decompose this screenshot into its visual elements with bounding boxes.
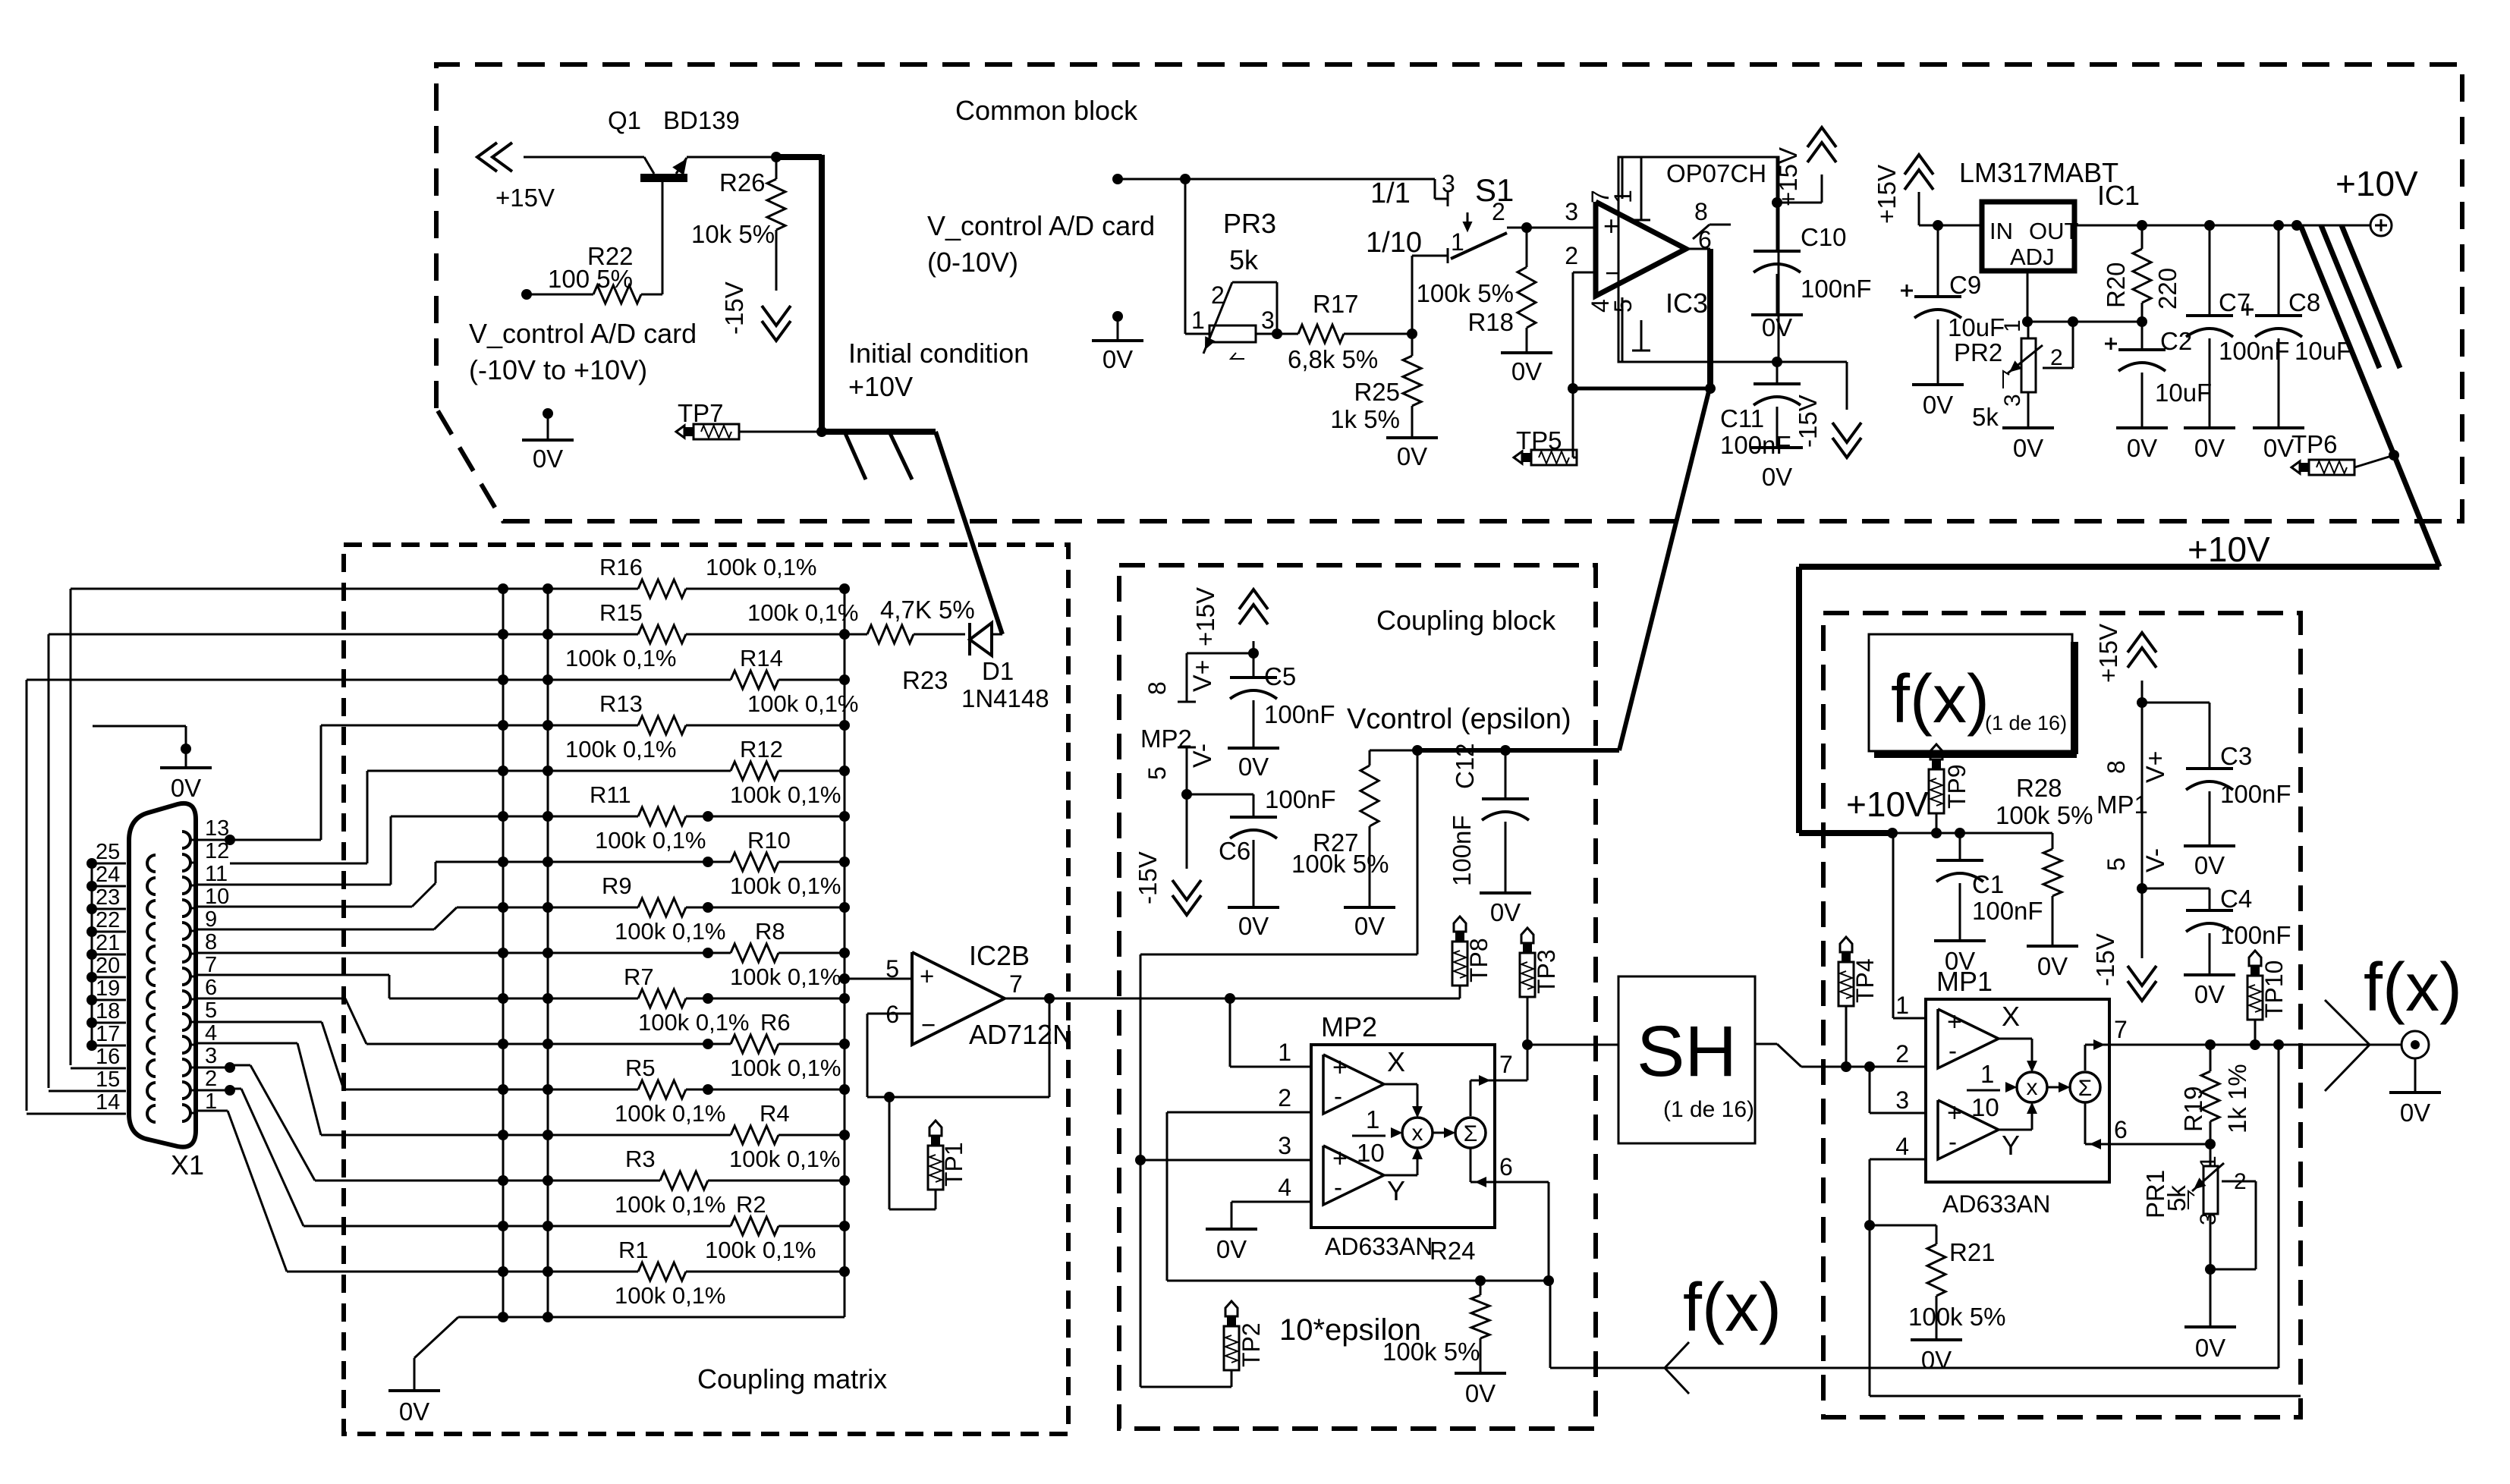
resistor R11	[391, 781, 845, 825]
svg-text:10uF: 10uF	[2295, 337, 2351, 365]
node bus R9	[839, 902, 850, 913]
MP2 pin6 internal	[1470, 1148, 1513, 1186]
node bus R1	[839, 1266, 850, 1277]
wire fx to BNC	[2370, 1044, 2402, 1046]
wire riser pin6	[196, 998, 366, 1044]
svg-text:IC1: IC1	[2097, 180, 2140, 211]
wire MP1 pin3	[1870, 1067, 1926, 1113]
svg-text:Q1: Q1	[608, 106, 641, 134]
svg-text:100k 0,1%: 100k 0,1%	[747, 599, 859, 626]
testpoint TP8	[1452, 916, 1492, 998]
svg-text:8: 8	[1143, 681, 1171, 695]
testpoint TP7	[676, 399, 739, 439]
label fx output	[2364, 950, 2462, 1026]
svg-text:0V: 0V	[2013, 434, 2043, 462]
power +15V arrow left	[477, 143, 555, 212]
matrix rail A	[502, 589, 505, 1317]
svg-text:100k 0,1%: 100k 0,1%	[730, 964, 841, 990]
node bus R15	[839, 629, 850, 640]
node V_control input	[1112, 174, 1435, 184]
svg-text:X: X	[2002, 1001, 2020, 1032]
svg-text:1: 1	[1451, 228, 1464, 256]
svg-text:R11: R11	[590, 781, 631, 808]
wire X1 ground rail	[91, 863, 93, 1042]
svg-text:3: 3	[1442, 170, 1455, 197]
svg-text:16: 16	[96, 1045, 120, 1069]
testpoint TP4	[1838, 937, 1879, 1067]
label 10*epsilon	[1279, 1313, 1421, 1347]
svg-text:0V: 0V	[2194, 851, 2225, 879]
svg-text:24: 24	[96, 863, 120, 887]
svg-text:6,8k 5%: 6,8k 5%	[1288, 345, 1378, 373]
MP2 V- pin	[1143, 744, 1217, 800]
svg-text:0V: 0V	[2037, 952, 2068, 980]
wire pin17 to ground	[93, 726, 191, 768]
wire riser pin13	[230, 725, 321, 840]
svg-text:R12: R12	[740, 736, 783, 762]
wire MP1 pin4	[1864, 1159, 1926, 1231]
matrix 0V row	[414, 1312, 845, 1391]
svg-text:0V: 0V	[2194, 980, 2225, 1008]
svg-text:(0-10V): (0-10V)	[927, 247, 1018, 278]
resistor R23	[845, 596, 975, 694]
svg-text:100k 0,1%: 100k 0,1%	[595, 827, 706, 854]
power -15V IC3	[1794, 395, 1861, 457]
svg-text:0V: 0V	[1465, 1379, 1496, 1407]
IC3 pin8 stub	[1693, 198, 1731, 239]
capacitor C10	[1754, 203, 1872, 315]
transistor Q1 BD139	[608, 106, 740, 182]
svg-text:+: +	[1603, 210, 1619, 241]
svg-text:Common block: Common block	[955, 95, 1138, 126]
wire PR1 bottom	[2210, 1214, 2212, 1327]
capacitor C9	[1901, 225, 2005, 385]
wire pin8 row	[195, 951, 197, 954]
potentiometer PR3	[1191, 208, 1277, 359]
svg-text:100k 0,1%: 100k 0,1%	[747, 690, 859, 717]
IC3 pin1 stub	[1609, 157, 1650, 220]
wire riser pin11	[196, 816, 391, 885]
svg-text:100nF: 100nF	[1264, 700, 1335, 728]
label Coupling matrix	[697, 1363, 887, 1394]
svg-text:0V: 0V	[399, 1398, 429, 1426]
svg-text:0V: 0V	[1490, 898, 1521, 926]
svg-text:R8: R8	[755, 918, 785, 945]
wire MP2 pin6	[1495, 1182, 1549, 1281]
node bus R8	[839, 948, 850, 958]
svg-text:R2: R2	[736, 1191, 766, 1218]
svg-text:0V: 0V	[1354, 912, 1385, 940]
svg-text:0V: 0V	[1923, 391, 1953, 419]
svg-text:R25: R25	[1354, 378, 1400, 406]
svg-text:D1: D1	[982, 657, 1014, 685]
svg-text:IC3: IC3	[1665, 288, 1708, 319]
wire riser pin16	[70, 589, 72, 1065]
wire riser pin1	[196, 1111, 287, 1272]
wire IC2B output	[1005, 993, 1055, 1004]
power -15V MP2	[1134, 794, 1201, 915]
wire MP1 output	[2109, 1016, 2325, 1050]
svg-text:R13: R13	[599, 690, 643, 717]
label Initial condition +10V	[848, 338, 1029, 402]
power +15V MP2	[1191, 587, 1268, 653]
svg-text:−: −	[1605, 257, 1621, 288]
resistor R24	[1382, 1237, 1489, 1373]
svg-text:MP2: MP2	[1321, 1011, 1377, 1042]
wire 10*epsilon rail	[1167, 1275, 1554, 1286]
ground 0V under C1	[1934, 941, 1986, 975]
ground 0V under R27	[1344, 907, 1395, 940]
svg-text:100k 5%: 100k 5%	[1996, 801, 2093, 829]
svg-text:PR2: PR2	[1954, 338, 2002, 366]
svg-text:+: +	[920, 962, 934, 990]
svg-text:220: 220	[2153, 268, 2181, 310]
svg-text:5: 5	[205, 998, 217, 1023]
ground 0V under R28	[2027, 946, 2078, 980]
wire IC3 +15V	[1772, 157, 1822, 208]
power -15V below R26	[720, 281, 791, 341]
wire IC2B out to coupling block	[1049, 993, 1460, 1004]
wire riser pin9	[196, 907, 457, 929]
wire MP2 pin3	[1140, 1159, 1311, 1162]
MP1 V+ pin	[2103, 697, 2170, 888]
svg-text:8: 8	[205, 930, 217, 954]
svg-text:TP4: TP4	[1851, 958, 1879, 1003]
wire thick initial condition	[776, 155, 822, 432]
svg-text:f(x): f(x)	[1891, 662, 1989, 737]
IC3 pin5 stub	[1609, 299, 1650, 351]
svg-text:ADJ: ADJ	[2010, 244, 2055, 270]
op-amp IC3 triangle	[1596, 159, 1766, 319]
ground 0V under input	[1092, 311, 1143, 373]
svg-text:V-: V-	[1188, 744, 1217, 768]
svg-text:100nF: 100nF	[1265, 785, 1336, 813]
svg-text:-15V: -15V	[1134, 851, 1162, 904]
svg-text:0V: 0V	[2263, 434, 2294, 462]
svg-text:3: 3	[1895, 1086, 1909, 1114]
svg-text:100k 0,1%: 100k 0,1%	[615, 1100, 726, 1127]
resistor R6	[366, 1009, 845, 1053]
svg-text:R18: R18	[1467, 308, 1514, 336]
svg-text:R28: R28	[2016, 774, 2062, 802]
capacitor C11	[1720, 362, 1801, 459]
svg-text:100 5%: 100 5%	[548, 265, 633, 293]
svg-text:5k: 5k	[2162, 1185, 2191, 1212]
svg-text:10k 5%: 10k 5%	[691, 220, 775, 248]
ground 0V under PR1	[2184, 1327, 2236, 1362]
svg-text:2: 2	[1211, 281, 1225, 309]
svg-text:TP6: TP6	[2291, 430, 2338, 458]
svg-text:LM317MABT: LM317MABT	[1959, 157, 2118, 188]
svg-text:TP7: TP7	[678, 399, 724, 427]
ground 0V under C10	[1751, 313, 1803, 341]
node bus R14	[839, 674, 850, 685]
label fx return	[1683, 1270, 1782, 1346]
ground 0V under R18	[1501, 353, 1552, 385]
svg-text:R14: R14	[740, 645, 783, 671]
resistor R14	[27, 645, 845, 689]
svg-text:f(x): f(x)	[2364, 950, 2462, 1026]
wire riser pin4	[196, 1043, 321, 1135]
testpoint TP10	[2247, 951, 2288, 1045]
svg-text:TP9: TP9	[1943, 764, 1971, 809]
svg-text:1: 1	[2196, 1155, 2221, 1168]
svg-text:7: 7	[1009, 970, 1023, 998]
svg-text:1/1: 1/1	[1370, 178, 1411, 209]
wire Q1 to R26 node	[687, 152, 782, 162]
wire PR3 pin3	[1256, 329, 1282, 339]
svg-text:7: 7	[2114, 1016, 2128, 1043]
svg-text:3: 3	[1278, 1132, 1291, 1159]
svg-text:4: 4	[205, 1021, 217, 1045]
power +15V IC3	[1774, 127, 1836, 206]
IC3 bottom rail	[1618, 357, 1847, 410]
wire Vcontrol to MP2 pin3	[1135, 750, 1417, 1387]
svg-text:8: 8	[1694, 198, 1708, 225]
svg-text:3: 3	[1261, 307, 1275, 334]
common block dashed border	[436, 64, 2462, 521]
label MP1 pin6	[2114, 1116, 2128, 1143]
svg-text:+15V: +15V	[1191, 587, 1219, 646]
svg-text:2: 2	[1278, 1084, 1291, 1111]
svg-text:V+: V+	[1188, 659, 1217, 692]
svg-text:+10V: +10V	[2335, 164, 2418, 203]
svg-text:AD712N: AD712N	[969, 1019, 1072, 1050]
wire riser pin14	[26, 680, 28, 1111]
node bus R6	[839, 1039, 850, 1049]
svg-text:0V: 0V	[171, 774, 201, 802]
wire +10V diagonal long	[2301, 225, 2439, 567]
svg-text:10uF: 10uF	[2155, 379, 2212, 407]
svg-text:7: 7	[205, 953, 217, 977]
resistor R28	[1996, 774, 2093, 946]
svg-text:0V: 0V	[1216, 1235, 1247, 1263]
multiplier MP2 AD633AN	[1278, 1011, 1495, 1260]
label MP1 power	[2096, 791, 2148, 819]
svg-text:R19: R19	[2179, 1086, 2207, 1132]
ground 0V under PR2	[2002, 428, 2054, 462]
svg-text:(1 de 16): (1 de 16)	[1663, 1097, 1754, 1122]
svg-text:-: -	[1949, 1127, 1957, 1155]
svg-text:R9: R9	[602, 872, 632, 899]
svg-text:AD633AN: AD633AN	[1942, 1190, 2050, 1218]
svg-text:-: -	[1949, 1036, 1957, 1064]
wire +15V to IN	[1919, 220, 1982, 231]
MP1 pin6 internal	[2085, 1102, 2109, 1148]
testpoint TP3	[1520, 928, 1560, 1045]
svg-text:100k 5%: 100k 5%	[1291, 850, 1389, 878]
svg-text:TP1: TP1	[940, 1142, 967, 1187]
IC3 pin4 stub	[1587, 297, 1622, 362]
svg-text:SH: SH	[1637, 1011, 1737, 1092]
resistor R15	[49, 599, 859, 643]
svg-text:C3: C3	[2220, 742, 2252, 770]
resistor R12	[367, 736, 845, 780]
wire fx output feedback	[2278, 1045, 2280, 1368]
wire riser pin2	[230, 1089, 304, 1226]
svg-text:MP1: MP1	[1936, 966, 1993, 997]
capacitor C6	[1219, 785, 1336, 907]
svg-text:+: +	[1332, 1144, 1348, 1173]
svg-text:100k 0,1%: 100k 0,1%	[729, 1146, 841, 1172]
wire bus diagonal to D1	[936, 432, 1002, 634]
svg-text:1: 1	[1191, 307, 1205, 334]
wire V- to C6	[1187, 794, 1253, 817]
ground 0V under R25	[1386, 438, 1438, 470]
svg-text:0V: 0V	[2195, 1334, 2225, 1362]
wire PR2 bottom	[2027, 392, 2030, 428]
svg-text:100nF: 100nF	[1801, 275, 1872, 303]
svg-text:MP1: MP1	[2096, 791, 2148, 819]
resistor R13	[321, 690, 859, 734]
svg-text:10: 10	[1357, 1139, 1385, 1167]
svg-text:3: 3	[2000, 394, 2025, 407]
svg-text:2: 2	[2050, 345, 2063, 370]
power +15V MP1	[2094, 624, 2156, 703]
svg-text:+10V: +10V	[2188, 530, 2270, 569]
svg-text:x: x	[1412, 1121, 1423, 1146]
svg-text:3: 3	[205, 1044, 217, 1068]
resistor R25	[1330, 334, 1421, 438]
wire S1 pole to IC3	[1507, 222, 1596, 233]
svg-text:20: 20	[96, 954, 120, 978]
ground 0V MP2 pin4	[1206, 1229, 1257, 1263]
wire TP7 to node	[739, 426, 827, 437]
block f(x) 1 de 16	[1869, 634, 2077, 754]
svg-text:C8: C8	[2288, 288, 2320, 316]
svg-text:0V: 0V	[1397, 442, 1427, 470]
capacitor C7	[2186, 225, 2290, 428]
svg-text:+15V: +15V	[2094, 624, 2122, 683]
svg-text:Σ: Σ	[1464, 1121, 1478, 1146]
wire IC3 out diagonal to Vcontrol	[1619, 388, 1710, 750]
svg-text:+15V: +15V	[1774, 147, 1802, 206]
resistor R10	[436, 827, 845, 871]
svg-text:100k 0,1%: 100k 0,1%	[706, 554, 817, 580]
wire ADJ rail	[2022, 271, 2147, 327]
wire OUT rail	[2074, 220, 2371, 231]
svg-text:C10: C10	[1801, 223, 1847, 251]
label Common block	[955, 95, 1138, 126]
IC3 pin6 label	[1698, 226, 1712, 253]
resistor R8	[196, 918, 845, 962]
ground 0V under C9	[1912, 385, 1964, 419]
wire PR2 top	[2027, 322, 2030, 338]
node bus R10	[839, 857, 850, 867]
ground 0V under C3	[2184, 846, 2235, 879]
node bus R5	[839, 1084, 850, 1095]
wire riser pin10	[196, 862, 436, 907]
coupling matrix dashed border	[344, 545, 1068, 1434]
svg-text:4: 4	[1278, 1174, 1291, 1201]
testpoint TP2	[1140, 1301, 1265, 1387]
wire MP1 pin1 riser	[1893, 833, 1926, 1018]
svg-text:R1: R1	[618, 1237, 649, 1263]
ground 0V under C12	[1480, 893, 1531, 926]
node bus R7	[839, 993, 850, 1004]
svg-text:11: 11	[205, 862, 228, 886]
svg-text:C1: C1	[1972, 870, 2004, 898]
label +10V rail	[2188, 530, 2270, 569]
svg-text:C12: C12	[1451, 743, 1479, 789]
svg-text:100k 0,1%: 100k 0,1%	[615, 1282, 726, 1309]
label R1 value	[615, 1282, 726, 1309]
svg-text:Initial condition: Initial condition	[848, 338, 1029, 369]
svg-text:0V: 0V	[2127, 434, 2157, 462]
svg-text:R6: R6	[760, 1009, 791, 1036]
wire riser pin12	[230, 771, 367, 863]
svg-text:100k 0,1%: 100k 0,1%	[615, 1191, 726, 1218]
svg-text:(-10V to +10V): (-10V to +10V)	[469, 354, 647, 385]
capacitor C3	[2142, 703, 2291, 846]
svg-text:Vcontrol (epsilon): Vcontrol (epsilon)	[1347, 703, 1571, 735]
op-amp IC3 box	[1618, 157, 1779, 362]
svg-text:1: 1	[1609, 190, 1637, 203]
svg-text:100nF: 100nF	[1720, 431, 1791, 459]
bus initial condition	[822, 432, 936, 479]
svg-text:R24: R24	[1430, 1237, 1476, 1265]
node bus R11	[839, 811, 850, 822]
svg-text:Σ: Σ	[2078, 1076, 2093, 1101]
ground 0V under C11	[1751, 448, 1803, 491]
svg-text:x: x	[2027, 1075, 2038, 1100]
resistor R21	[1870, 1225, 2005, 1340]
svg-text:7: 7	[1499, 1051, 1513, 1078]
testpoint TP6	[2291, 430, 2399, 475]
svg-text:Coupling matrix: Coupling matrix	[697, 1363, 887, 1394]
resistor R7	[389, 964, 845, 1008]
resistor R9	[457, 872, 845, 916]
multiplier MP1 AD633AN	[1895, 966, 2109, 1218]
svg-text:100k 5%: 100k 5%	[1417, 279, 1514, 307]
op-amp IC2B	[885, 940, 1072, 1050]
svg-text:13: 13	[205, 816, 229, 841]
svg-text:100k 5%: 100k 5%	[1382, 1338, 1480, 1366]
ground 0V matrix bottom	[388, 1391, 440, 1426]
svg-text:TP8: TP8	[1465, 938, 1492, 983]
svg-text:1N4148: 1N4148	[961, 684, 1049, 712]
node bus R2	[839, 1221, 850, 1231]
function block dashed border	[1823, 613, 2301, 1417]
node bus R16	[839, 583, 850, 594]
svg-text:+: +	[1332, 1053, 1348, 1082]
svg-text:TP3: TP3	[1533, 949, 1560, 994]
svg-text:0V: 0V	[1238, 753, 1269, 781]
block SH	[1618, 976, 1755, 1143]
resistor R22	[521, 242, 662, 303]
svg-text:10uF: 10uF	[1948, 313, 2005, 341]
wire PR1 top	[2210, 1144, 2212, 1166]
capacitor C4	[2142, 885, 2291, 975]
svg-text:100k 0,1%: 100k 0,1%	[638, 1009, 750, 1036]
svg-text:V+: V+	[2141, 750, 2170, 783]
wire +10V node	[1887, 828, 2052, 838]
MP2 V+ pin	[1143, 648, 1259, 702]
svg-text:TP2: TP2	[1238, 1322, 1265, 1367]
svg-text:100k 5%: 100k 5%	[1908, 1303, 2005, 1331]
connector BNC output	[2401, 1031, 2429, 1093]
svg-text:Y: Y	[1387, 1175, 1405, 1206]
resistor R1	[287, 1237, 845, 1281]
ground 0V under C7	[2184, 428, 2235, 462]
svg-text:6: 6	[205, 976, 217, 1000]
svg-text:-: -	[1334, 1173, 1342, 1201]
label Vcontrol (epsilon)	[1347, 703, 1571, 735]
MP2 pin7 internal	[1470, 1077, 1495, 1116]
svg-text:100nF: 100nF	[1448, 815, 1476, 886]
wire +10V diagonal short 2	[2342, 225, 2400, 368]
svg-text:IC2B: IC2B	[969, 940, 1030, 971]
